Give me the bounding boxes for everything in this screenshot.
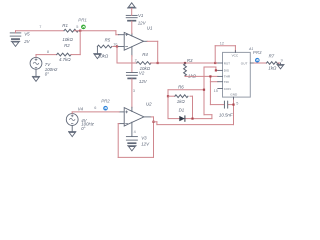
resistor R1: [64, 29, 78, 32]
svg-text:5: 5: [236, 101, 238, 105]
junction dot R3 top: [184, 62, 186, 64]
junction dot node10: [116, 45, 118, 47]
svg-text:U1: U1: [147, 25, 153, 30]
op-amp U2: [119, 107, 151, 136]
svg-text:PR1: PR1: [78, 18, 87, 23]
wire net3 V2 to U2 vcc: [131, 79, 133, 108]
probe PR1: [81, 25, 86, 30]
wire U2 output and feedback loop: [118, 117, 153, 157]
wire net6 V4 to U2 input: [72, 112, 119, 113]
wire node5 down to R2: [79, 31, 81, 55]
svg-text:4.7kΩ: 4.7kΩ: [59, 57, 71, 62]
svg-text:2V: 2V: [23, 39, 30, 44]
resistor R4: [137, 62, 151, 65]
svg-text:10kΩ: 10kΩ: [62, 37, 73, 42]
svg-text:10.5nF: 10.5nF: [219, 113, 233, 118]
wire R4 to output node: [150, 62, 157, 64]
svg-text:R5: R5: [105, 38, 111, 43]
svg-text:3: 3: [133, 89, 135, 93]
svg-text:1kΩ: 1kΩ: [268, 65, 277, 70]
junction dot THR: [209, 75, 211, 77]
svg-text:THR: THR: [224, 75, 231, 79]
ground left of R5: [94, 47, 101, 59]
ground below V3: [128, 146, 137, 151]
svg-text:5: 5: [76, 25, 78, 29]
svg-text:4: 4: [134, 130, 136, 134]
svg-text:OUT: OUT: [241, 61, 248, 65]
svg-text:R7: R7: [269, 54, 275, 59]
svg-text:DIS: DIS: [224, 69, 229, 73]
svg-text:D1: D1: [179, 108, 185, 113]
svg-text:1kΩ: 1kΩ: [177, 99, 186, 104]
junction dot output/R4: [157, 62, 159, 64]
ground below V4: [69, 126, 76, 137]
svg-text:0°: 0°: [45, 71, 49, 76]
wire net: U1 out to RST: [158, 62, 218, 64]
resistor R5: [97, 45, 111, 48]
svg-text:6: 6: [94, 106, 96, 110]
diode D1: [168, 118, 212, 120]
svg-text:12V: 12V: [138, 20, 147, 25]
svg-text:RST: RST: [224, 61, 230, 65]
svg-text:12: 12: [220, 41, 224, 45]
svg-text:8: 8: [47, 50, 49, 54]
wire node10 down to node2: [117, 47, 137, 64]
wire U1 output: [147, 41, 158, 63]
AC source V4 4V: [66, 114, 78, 126]
svg-text:R2: R2: [64, 43, 70, 48]
junction dot U2 output: [152, 121, 154, 123]
svg-text:15: 15: [214, 89, 218, 93]
svg-text:PR3: PR3: [253, 50, 262, 55]
svg-text:9: 9: [281, 58, 283, 62]
555 pin stubs: [218, 51, 254, 99]
wire V1 to U1 vcc: [131, 8, 133, 33]
wire U2 out to 555 gnd net: [154, 97, 234, 125]
svg-text:GND: GND: [230, 93, 238, 97]
capacitor C1: [224, 101, 227, 108]
wire R5 to node10 to U1: [113, 46, 119, 48]
op-amp U1: [119, 32, 148, 56]
battery V2: [126, 73, 137, 79]
svg-text:12V: 12V: [141, 141, 150, 146]
battery V3 below U2: [126, 137, 137, 144]
ground below V5: [11, 41, 20, 46]
wire net8 source to R2: [36, 55, 57, 57]
junction dot node 5: [79, 30, 81, 32]
battery V1 above U1: [126, 15, 137, 20]
resistor R6: [168, 95, 193, 97]
wire THR net: [185, 76, 218, 104]
svg-text:R1: R1: [62, 23, 68, 28]
svg-text:CON: CON: [224, 87, 231, 91]
svg-text:V5: V5: [24, 31, 30, 36]
svg-text:V3: V3: [141, 136, 147, 141]
junction dot RST/vcc: [214, 62, 216, 64]
timer U3 box: [223, 52, 251, 97]
ground below AC source: [32, 69, 39, 81]
svg-text:R6: R6: [178, 85, 184, 90]
probe PR3: [255, 58, 260, 63]
capacitor C1 wire: [210, 104, 233, 106]
wire DIS hook: [204, 67, 218, 119]
svg-text:TRI: TRI: [224, 80, 229, 84]
wire OUT to R7: [254, 62, 266, 64]
ground right of R7: [277, 63, 284, 69]
AC source 7V 100Hz: [30, 57, 42, 69]
555 vcc loop wire net12: [215, 46, 235, 63]
resistor R2: [57, 53, 71, 56]
svg-text:12V: 12V: [139, 79, 148, 84]
svg-text:R3: R3: [187, 58, 193, 63]
battery V5: [10, 33, 21, 39]
wire to R6/D1 left: [168, 90, 204, 119]
junction dot W_a: [203, 89, 205, 91]
wire R2 to junction: [71, 54, 80, 56]
probe PR2: [103, 106, 108, 111]
resistor R3: [184, 64, 187, 76]
wire net7 V5 to R1: [16, 31, 65, 33]
svg-text:U2: U2: [146, 102, 152, 107]
svg-text:2: 2: [135, 58, 137, 62]
junction dot D1 right: [191, 118, 193, 120]
svg-text:7: 7: [39, 25, 41, 29]
svg-text:0°: 0°: [81, 126, 85, 131]
svg-text:V1: V1: [138, 13, 144, 18]
svg-text:R4: R4: [142, 52, 148, 57]
resistor R7: [267, 62, 280, 65]
svg-text:V2: V2: [139, 71, 145, 76]
ground above V1: [127, 3, 136, 8]
junction dot DIS: [215, 69, 217, 71]
wire R1 to node5 to U1: [74, 31, 118, 35]
wire U1 minus supply chain: node2 via battery V2 down to U2: [131, 56, 133, 73]
junction dot R6 left: [167, 95, 169, 97]
svg-text:VCC: VCC: [232, 54, 239, 58]
junction dot gnd/C1: [232, 104, 234, 106]
svg-text:V4: V4: [78, 106, 84, 111]
svg-text:PR2: PR2: [101, 98, 110, 103]
wire R6 right down: [192, 96, 194, 118]
wire R7 to ground: [278, 62, 280, 64]
